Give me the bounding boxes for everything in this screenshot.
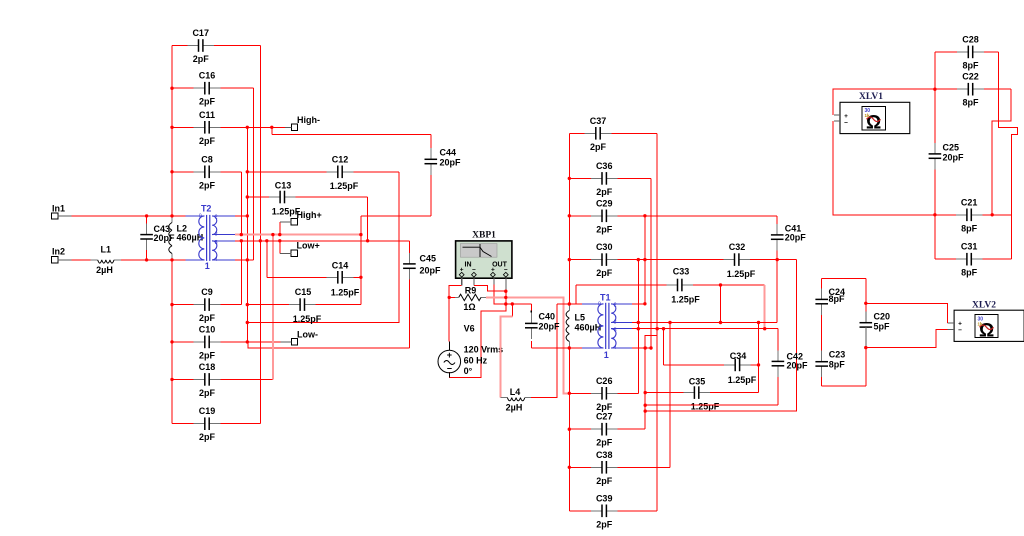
junction C34 right leg (757, 363, 760, 366)
junction C41 C32 line (776, 258, 779, 261)
junction C29 leg toptap (643, 302, 646, 305)
svg-text:2pF: 2pF (199, 313, 216, 323)
wire L4 left riser pale (500, 317, 512, 398)
wire C17-C19 right leg (259, 46, 261, 424)
junction C37 leg mid2 (656, 327, 659, 330)
junction OUT- IN- (504, 290, 507, 293)
svg-text:C23: C23 (829, 349, 846, 359)
wire C14 right (353, 276, 361, 278)
capacitor C22 (957, 72, 984, 108)
svg-text:2pF: 2pF (199, 432, 216, 442)
wire T1 bottom rail blue (582, 347, 591, 349)
wire C14-C15 right leg (360, 216, 362, 305)
svg-text:High-: High- (297, 115, 320, 125)
svg-text:1.25pF: 1.25pF (330, 181, 359, 191)
svg-text:2pF: 2pF (596, 187, 613, 197)
svg-text:C10: C10 (199, 324, 216, 334)
port In2 (52, 247, 72, 264)
capacitor C11 (194, 110, 221, 146)
wire C15 right (316, 304, 361, 306)
wire bottomtap-C27 bus (644, 348, 646, 429)
junction C43-In2 (145, 258, 148, 261)
capacitor C25 (928, 143, 964, 170)
wire Low+ leg (279, 241, 281, 254)
wire IN+ to R9 left (449, 286, 462, 342)
wire T2 mid1 lead (235, 234, 361, 236)
junction bus-bottom-lead (246, 258, 249, 261)
svg-text:XLV2: XLV2 (972, 301, 996, 311)
svg-text:Low+: Low+ (297, 241, 320, 251)
capacitor C8 (194, 154, 221, 190)
wire C33 right drop (764, 285, 766, 329)
capacitor C14 (327, 261, 360, 298)
wire C8 right (220, 171, 241, 173)
capacitor C43 (140, 224, 175, 251)
svg-text:XLV1: XLV1 (859, 92, 883, 102)
junction Low+ tap2 (278, 239, 281, 242)
svg-text:C31: C31 (961, 242, 978, 252)
junction bus-C12 (246, 170, 249, 173)
wire C45 bottom lead (408, 279, 410, 348)
wire C42 top lead (777, 329, 779, 351)
junction C34 leg mid1 (757, 321, 760, 324)
wire C34 left (664, 364, 725, 366)
junction rail-C9 (170, 303, 173, 306)
capacitor C39 (591, 493, 618, 529)
wire main bus x247 (246, 127, 248, 342)
wire C35-C34-mid1 leg (758, 323, 760, 393)
svg-text:C44: C44 (440, 148, 457, 158)
wire C42 bottom lead (777, 377, 779, 405)
wire R9 left lead (449, 296, 455, 298)
capacitor C15 (289, 287, 322, 324)
wire C22 row (935, 88, 957, 90)
wire C28 staircase (998, 52, 1017, 259)
wire right ladder rail upper (568, 133, 570, 304)
wire L4 right riser (531, 304, 557, 398)
junction C20 bottom (864, 346, 867, 349)
wire In1 (72, 215, 186, 217)
wire C12 right (353, 171, 399, 173)
svg-text:3: 3 (614, 320, 617, 326)
wire C25 bottom lead (934, 169, 936, 259)
wire C20 bottom link (865, 348, 867, 386)
wire C13 right (296, 196, 368, 198)
wire tap1 to C18 leg (272, 235, 274, 380)
junction bus-C12return (246, 321, 249, 324)
resistor R9 (453, 286, 487, 313)
svg-text:Low-: Low- (297, 330, 318, 340)
wire C39 left (569, 510, 591, 512)
junction C36 leg bottomtap (649, 346, 652, 349)
wire In2 left (72, 259, 91, 261)
svg-text:60 Hz: 60 Hz (464, 356, 488, 366)
junction C29 leg C30 (643, 258, 646, 261)
wire C33 right (693, 284, 765, 286)
wire C37 right (611, 132, 657, 134)
svg-text:C45: C45 (420, 254, 437, 264)
junction rail C27 (568, 428, 571, 431)
svg-text:C29: C29 (596, 198, 613, 208)
transformer T1 (598, 303, 616, 349)
svg-text:1.25pF: 1.25pF (331, 288, 360, 298)
svg-text:IN: IN (465, 262, 472, 269)
capacitor C21 (956, 197, 983, 233)
wire IN- to OUT- bus (474, 285, 506, 291)
capacitor C32 (723, 242, 755, 279)
wire C17 right (214, 45, 260, 47)
capacitor C45 (402, 253, 441, 280)
svg-text:High+: High+ (297, 210, 322, 220)
capacitor C34 (724, 351, 757, 385)
junction C38 leg mid1 (668, 321, 671, 324)
svg-text:0: 0 (199, 213, 202, 219)
wire High+ leg (279, 222, 281, 235)
junction bus-C15 (246, 303, 249, 306)
port Low+ (280, 241, 320, 257)
wire C36 leg (650, 178, 652, 348)
wire XLV2 plus (866, 303, 948, 323)
svg-text:T1: T1 (600, 293, 611, 303)
instrument XLV1 (834, 102, 910, 133)
junction C30 drop mid1 (637, 321, 640, 324)
svg-text:C32: C32 (729, 242, 746, 252)
svg-text:2: 2 (614, 302, 617, 308)
capacitor C13 (269, 181, 301, 217)
inductor L4 (500, 387, 531, 413)
capacitor C33 (666, 267, 700, 305)
wire tap2 to C14 leg (266, 241, 268, 277)
junction L4 riser top (511, 302, 514, 305)
wire mid2 to C45 top (368, 240, 410, 242)
wire T1 primary leads blue (591, 304, 632, 348)
wire C30 to C32 (569, 259, 723, 261)
junction C30 drop mid2 (637, 327, 640, 330)
svg-text:−: − (958, 327, 962, 334)
svg-text:C40: C40 (539, 312, 556, 322)
wire tap2 to C9 bus (240, 241, 242, 305)
svg-text:1.25pF: 1.25pF (691, 402, 720, 412)
capacitor C19 (194, 406, 221, 442)
wire C26 left (569, 392, 591, 394)
wire C31 row (935, 258, 956, 260)
wire C45 top lead (408, 241, 410, 253)
wire C28 row (935, 51, 957, 53)
wire C12 return vertical (247, 172, 398, 323)
wire C43 bottom lead (146, 250, 148, 260)
svg-text:1: 1 (604, 350, 609, 360)
wire C17 left (172, 45, 187, 47)
wire OUT+ down (494, 284, 531, 304)
wire XLV1 minus (833, 121, 935, 215)
svg-text:C25: C25 (943, 143, 960, 153)
wire XBP1 IN- pin stub (473, 278, 475, 285)
svg-text:C35: C35 (689, 377, 706, 387)
wire C43 top lead (146, 216, 148, 224)
wire C34 right (751, 364, 759, 366)
svg-text:T2: T2 (201, 204, 212, 214)
capacitor C40 (524, 312, 560, 339)
wire In2 blue stub (185, 259, 199, 261)
wire C41 bottom lead (776, 250, 778, 322)
svg-text:2pF: 2pF (596, 438, 613, 448)
junction OUT- OUT+ (504, 302, 507, 305)
capacitor C28 (957, 34, 984, 70)
svg-text:8pF: 8pF (829, 294, 846, 304)
wire XBP1 IN+ pin stub (461, 278, 463, 286)
wire C27 left (569, 428, 591, 430)
svg-text:1.25pF: 1.25pF (671, 295, 700, 305)
junction C17leg-tap2 (259, 239, 262, 242)
junction midbus-tap1 (359, 233, 362, 236)
port High+ (280, 210, 322, 225)
inductor L2 (169, 216, 203, 260)
svg-text:20pF: 20pF (154, 233, 176, 243)
svg-text:C33: C33 (673, 267, 690, 277)
junction High- branch (270, 126, 273, 129)
wire C8 to tap1 bus (240, 172, 242, 235)
svg-text:L5: L5 (575, 313, 586, 323)
svg-text:C20: C20 (874, 312, 891, 322)
junction rail-C10 (170, 340, 173, 343)
wire C15 left (247, 304, 289, 306)
capacitor C42 (771, 350, 808, 377)
svg-text:C26: C26 (596, 376, 613, 386)
svg-text:2pF: 2pF (199, 388, 216, 398)
wire C24 top lead red (821, 279, 823, 289)
svg-text:C36: C36 (596, 161, 613, 171)
junction bus C32 return (644, 409, 647, 412)
capacitor C17 (187, 28, 214, 64)
wire T2 top secondary lead (235, 215, 247, 217)
junction C9bus-tap2 (240, 239, 243, 242)
wire C38 left (569, 466, 591, 468)
wire C21 right (982, 214, 1011, 216)
capacitor C18 (194, 362, 221, 398)
svg-text:1: 1 (205, 261, 210, 271)
svg-text:C34: C34 (730, 351, 747, 361)
wire right ladder rail lower (568, 348, 570, 511)
wire C26 right (618, 392, 639, 394)
wire C10 to Low- (172, 341, 281, 343)
wire T1 primary top blue (582, 303, 591, 305)
wire C44 bottom lead (430, 175, 432, 216)
wire T1 mid1 tap (632, 322, 777, 324)
wire C8 left (172, 171, 194, 173)
wire left ladder rail upper (171, 46, 173, 217)
junction bus C42 return (644, 404, 647, 407)
junction C34 leg mid2 (662, 327, 665, 330)
junction C33 link lead (719, 283, 722, 286)
junction C14leg-tap2 (265, 239, 268, 242)
capacitor C12 (327, 154, 359, 191)
wire T1 primary top (557, 303, 582, 305)
junction High+ tap1 (278, 233, 281, 236)
junction rail-In2 (170, 258, 173, 261)
svg-text:C38: C38 (596, 450, 613, 460)
junction rail C21 (933, 213, 936, 216)
junction bus-C11 (246, 126, 249, 129)
svg-text:2pF: 2pF (596, 224, 613, 234)
svg-text:C13: C13 (275, 181, 292, 191)
svg-text:1.25pF: 1.25pF (728, 375, 757, 385)
wire C29 to C41 (569, 215, 777, 217)
svg-text:1Ω: 1Ω (463, 302, 475, 312)
svg-text:L4: L4 (510, 387, 521, 397)
wire jog to C45 bottom (247, 342, 409, 348)
wire C27 right (618, 428, 646, 430)
svg-text:C11: C11 (199, 110, 215, 120)
svg-text:C30: C30 (596, 242, 613, 252)
svg-text:2µH: 2µH (96, 265, 113, 275)
junction bus-C13 (246, 195, 249, 198)
wire C44 bottom to mid bus (361, 215, 431, 217)
svg-text:2pF: 2pF (590, 142, 607, 152)
junction rail C22 (933, 88, 936, 91)
wire C22 staircase (992, 89, 1011, 215)
svg-text:C19: C19 (199, 406, 216, 416)
wire T1 bottom rail (531, 347, 582, 349)
junction C33 link mid1 (719, 321, 722, 324)
wire C29-toptap leg (644, 216, 646, 304)
svg-text:1k: 1k (978, 322, 984, 327)
svg-text:5: 5 (614, 328, 617, 334)
svg-text:2µH: 2µH (506, 403, 523, 413)
wire OUT- down (450, 290, 506, 378)
svg-text:8pF: 8pF (962, 60, 979, 70)
wire T2 secondary leads blue (212, 216, 235, 260)
wire C35 right (710, 392, 759, 394)
wire In2 right (121, 259, 185, 261)
wire C44 top lead (430, 134, 432, 148)
junction C18leg-tap1 (271, 233, 274, 236)
junction bus bottomtap (644, 346, 647, 349)
junction rail-In1 (170, 214, 173, 217)
wire C24 loop bottom (822, 385, 866, 387)
wire C37 left (569, 132, 584, 134)
svg-text:5pF: 5pF (874, 322, 891, 332)
junction bus-top-lead (246, 214, 249, 217)
wire C16 right (220, 87, 253, 89)
svg-text:120 Vrms: 120 Vrms (464, 345, 504, 355)
wire C39 right (618, 510, 658, 512)
svg-text:−: − (844, 120, 848, 127)
capacitor C26 (591, 376, 618, 412)
wire T1 top tap (632, 303, 645, 305)
svg-text:C9: C9 (201, 287, 213, 297)
junction rail-C18 (170, 378, 173, 381)
svg-text:2pF: 2pF (596, 476, 613, 486)
capacitor C27 (591, 412, 618, 448)
svg-text:2pF: 2pF (596, 268, 613, 278)
port Low- (281, 330, 318, 346)
svg-text:4: 4 (215, 257, 218, 263)
junction C33 drop mid2 (763, 327, 766, 330)
wire C23 bottom lead (821, 377, 823, 386)
junction C20 top (864, 302, 867, 305)
svg-text:20pF: 20pF (943, 153, 965, 163)
svg-text:20pF: 20pF (787, 361, 809, 371)
wire XBP1 OUT- pin stub (505, 278, 507, 290)
wire left ladder rail lower (171, 260, 173, 424)
svg-text:0°: 0° (464, 366, 473, 376)
wire C16 right leg (252, 88, 254, 260)
svg-text:1.25pF: 1.25pF (727, 269, 756, 279)
capacitor C20 (860, 312, 891, 348)
wire C11 to High- (172, 126, 288, 128)
junction R9 left (448, 296, 451, 299)
wire C28 right (984, 51, 999, 53)
wire C31 right (982, 258, 1011, 260)
wire C21 row (935, 214, 956, 216)
wire C18 (172, 378, 273, 380)
svg-text:C37: C37 (590, 116, 607, 126)
svg-text:8pF: 8pF (961, 223, 978, 233)
svg-text:C17: C17 (192, 28, 209, 38)
junction rail C30 (568, 258, 571, 261)
wire C13 left (247, 196, 269, 198)
capacitor C29 (591, 198, 618, 234)
transformer T2 (199, 215, 217, 261)
junction rail C36 (568, 177, 571, 180)
wire C22 right (984, 88, 1011, 90)
svg-text:C27: C27 (596, 412, 613, 422)
capacitor C30 (591, 242, 618, 278)
junction bus C35 line (644, 391, 647, 394)
svg-text:C22: C22 (962, 72, 979, 82)
svg-text:C14: C14 (332, 261, 349, 271)
inductor L1 (91, 245, 121, 276)
svg-text:L1: L1 (101, 245, 112, 255)
wire C13 right leg (367, 197, 369, 241)
svg-text:C16: C16 (199, 71, 216, 81)
wire C37-C39 leg (656, 133, 658, 511)
svg-text:0: 0 (598, 301, 601, 307)
junction OUT- R9 (504, 296, 507, 299)
capacitor C44 (424, 148, 461, 175)
capacitor C9 (194, 287, 221, 323)
svg-text:V6: V6 (464, 324, 475, 334)
wire C20 top link (865, 279, 867, 312)
wire T2 bottom secondary lead (235, 259, 253, 261)
wire C24-C23 link (821, 315, 823, 351)
svg-text:20pF: 20pF (785, 233, 807, 243)
svg-text:In2: In2 (52, 247, 65, 257)
wire XBP1 OUT+ pin stub (493, 278, 495, 284)
wire C14 left (267, 276, 327, 278)
capacitor C31 (956, 242, 983, 278)
wire C36 right (618, 177, 652, 179)
svg-text:8pF: 8pF (961, 268, 978, 278)
svg-text:2: 2 (215, 214, 218, 220)
wire C9 left (172, 304, 194, 306)
wire XLV2 minus (866, 329, 948, 347)
svg-text:2pF: 2pF (596, 519, 613, 529)
wire C9 right (220, 304, 241, 306)
svg-text:2pF: 2pF (199, 350, 216, 360)
svg-text:C8: C8 (201, 154, 213, 164)
wire mid2-C34 leg (663, 329, 665, 365)
svg-text:C12: C12 (332, 154, 349, 164)
junction bus-C10 (246, 340, 249, 343)
wire C41 top lead (776, 216, 778, 224)
capacitor C37 (585, 116, 612, 152)
svg-text:2pF: 2pF (199, 136, 216, 146)
svg-text:−: − (447, 363, 452, 373)
junction rail-C16 (170, 87, 173, 90)
wire mid2 jog (645, 335, 657, 348)
capacitor C35 (683, 377, 719, 412)
